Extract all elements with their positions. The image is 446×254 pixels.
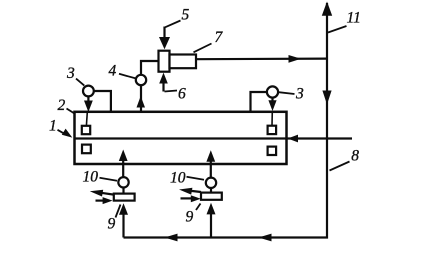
instrument circle 3 (right)	[267, 86, 278, 97]
return line up into left heater with arrow	[122, 212, 124, 238]
air up line from left heater into vessel with arrow	[122, 160, 124, 177]
svg-text:8: 8	[351, 148, 359, 165]
svg-text:10: 10	[83, 169, 99, 186]
arrowhead down on pipe 8	[322, 91, 331, 105]
leader arrow for label 1	[58, 130, 65, 134]
sensor square R2	[268, 147, 277, 155]
arrowhead up at top of pipe 11	[322, 2, 332, 16]
wire: vessel top down to square R1	[271, 111, 273, 126]
wire: vessel top down to square L1	[85, 112, 88, 126]
svg-text:7: 7	[215, 29, 224, 46]
sensor square R1	[268, 126, 277, 134]
bottom return pipe arrowhead (right)	[259, 234, 272, 242]
fuel arrow 6 up into burner bottom	[162, 80, 164, 92]
heater unit left: circle 10	[118, 177, 128, 187]
instrument circle 3 (left)	[83, 86, 94, 97]
svg-text:4: 4	[109, 63, 117, 80]
leader for label 4	[119, 74, 136, 79]
burner 7 right block	[170, 55, 197, 69]
heater box 9 (left)	[114, 194, 135, 201]
stem circle to box (right heater)	[210, 188, 212, 193]
feed arrow 5 into burner top	[163, 27, 165, 41]
instrument circle 4	[136, 75, 146, 85]
air up line from right heater into vessel with arrow	[210, 161, 212, 178]
svg-text:3: 3	[295, 86, 304, 103]
pipe from burner 7 to riser pipe	[196, 57, 327, 60]
wire: circle 4 up to burner 7	[141, 61, 159, 75]
leader for label 3 left	[76, 79, 84, 86]
svg-text:5: 5	[182, 7, 190, 24]
leader for label 3 right	[279, 92, 295, 94]
wire: circle3-right bracket to vessel top	[251, 92, 267, 112]
svg-text:2: 2	[58, 97, 66, 114]
right heater: out arrow (points left)	[189, 191, 201, 192]
bottom return pipe arrowhead (left)	[165, 234, 178, 242]
burner 7 left block	[159, 51, 170, 72]
leader for label 11	[328, 26, 347, 33]
wire: vessel top up to circle 4 with up arrow	[140, 85, 142, 112]
svg-text:10: 10	[170, 170, 186, 187]
svg-text:9: 9	[186, 209, 194, 226]
vessel body (dryer chamber 1/2)	[75, 112, 287, 164]
vessel partition line extended right (net to pipe 8)	[75, 137, 353, 139]
return line up into right heater with arrow	[210, 212, 212, 238]
leader for label 10 left	[100, 178, 118, 181]
sensor square L1	[82, 126, 90, 134]
leader for label 2	[67, 109, 75, 114]
arrowhead on burner outlet pipe	[289, 55, 302, 63]
arrow down from circle 3 right into vessel	[271, 98, 273, 101]
riser/return pipe 8-11 (right vertical + bottom run)	[124, 3, 328, 238]
heater unit right: circle 10	[206, 178, 216, 188]
leader tick for label 6	[165, 91, 178, 92]
leader for label 9 right	[196, 204, 201, 211]
heater box 9 (right)	[201, 193, 222, 200]
partition inlet arrowhead (flow into vessel from right)	[288, 135, 298, 143]
leader for label 7	[194, 44, 212, 53]
svg-text:1: 1	[49, 118, 57, 135]
svg-text:9: 9	[108, 216, 116, 233]
sensor square L2	[82, 145, 91, 154]
leader for label 8	[330, 162, 350, 171]
wire: circle3-left bracket to vessel top	[94, 91, 111, 112]
stem circle to box (left heater)	[122, 188, 124, 194]
left heater: in arrow (points right)	[96, 200, 105, 202]
arrow down from circle 3 left into vessel	[87, 96, 89, 101]
svg-text:3: 3	[66, 65, 75, 82]
left heater: out arrow (points left)	[101, 193, 114, 195]
leader for label 5	[165, 21, 180, 28]
leader for label 9 left	[116, 205, 121, 218]
right heater: in arrow (points right)	[181, 197, 192, 199]
svg-text:11: 11	[347, 9, 361, 26]
leader for label 10 right	[187, 177, 205, 180]
svg-text:6: 6	[178, 86, 186, 103]
